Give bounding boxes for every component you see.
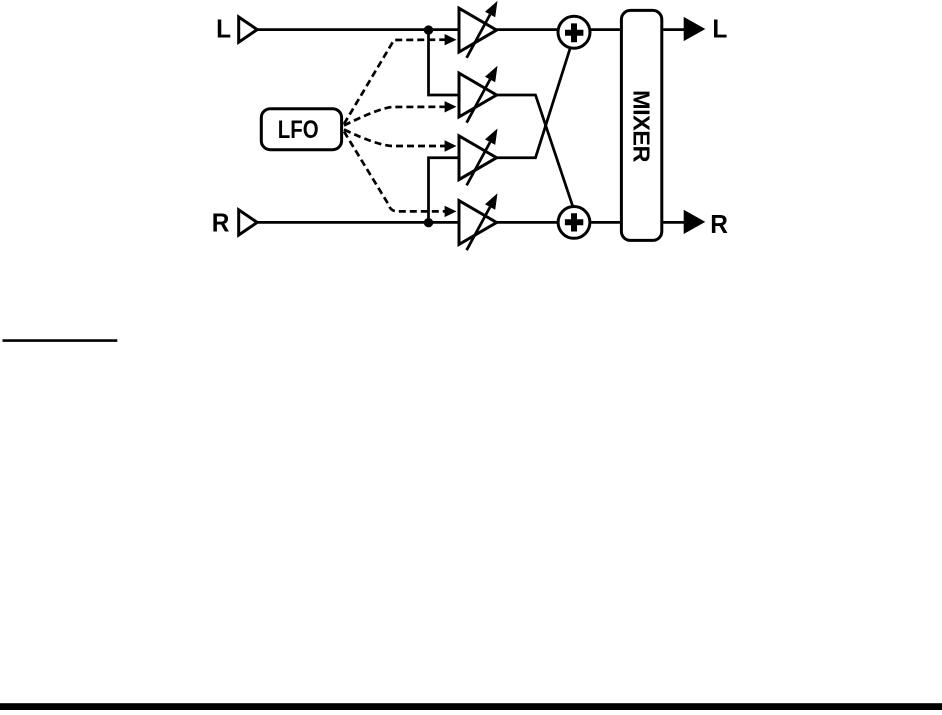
svg-text:LFO: LFO (278, 115, 319, 144)
svg-text:L: L (712, 15, 727, 44)
svg-text:MIXER: MIXER (629, 90, 655, 162)
svg-text:R: R (710, 210, 728, 239)
svg-text:L: L (216, 15, 231, 44)
svg-text:R: R (212, 209, 230, 238)
